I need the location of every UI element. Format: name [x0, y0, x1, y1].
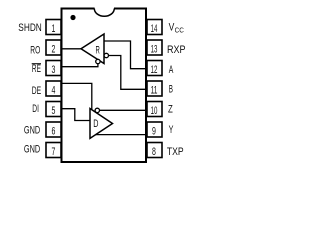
- svg-text:R: R: [96, 44, 100, 56]
- svg-text:12: 12: [151, 64, 158, 76]
- svg-text:A: A: [169, 64, 174, 76]
- svg-text:9: 9: [152, 125, 156, 137]
- svg-text:RO: RO: [30, 44, 40, 56]
- svg-text:RXP: RXP: [167, 44, 186, 56]
- svg-text:TXP: TXP: [167, 146, 184, 158]
- svg-text:5: 5: [51, 105, 55, 117]
- svg-text:CC: CC: [175, 25, 185, 34]
- svg-text:RE: RE: [32, 63, 41, 75]
- svg-text:GND: GND: [24, 144, 40, 156]
- svg-text:6: 6: [51, 125, 55, 137]
- svg-text:DI: DI: [32, 103, 39, 115]
- svg-text:Z: Z: [168, 104, 173, 116]
- svg-text:11: 11: [151, 84, 158, 96]
- svg-text:D: D: [93, 118, 98, 130]
- svg-text:2: 2: [51, 43, 55, 55]
- svg-text:SHDN: SHDN: [18, 22, 42, 34]
- svg-text:DE: DE: [32, 85, 41, 97]
- svg-text:3: 3: [51, 64, 55, 76]
- svg-text:Y: Y: [169, 124, 174, 136]
- svg-text:10: 10: [151, 105, 158, 117]
- svg-text:GND: GND: [24, 124, 40, 136]
- svg-text:1: 1: [51, 23, 55, 35]
- svg-text:B: B: [169, 84, 173, 96]
- svg-text:7: 7: [51, 146, 55, 158]
- svg-text:14: 14: [151, 23, 158, 35]
- svg-text:4: 4: [51, 84, 55, 96]
- svg-text:13: 13: [151, 43, 158, 55]
- svg-text:8: 8: [152, 146, 156, 158]
